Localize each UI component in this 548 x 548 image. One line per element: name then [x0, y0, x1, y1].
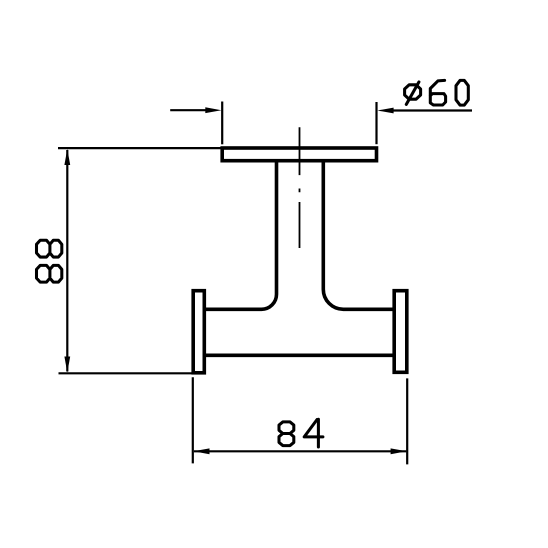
wall plate Ø60 flange (side view) — [222, 148, 376, 161]
bar bottom outline — [205, 353, 395, 357]
Ø60 right arrowhead (points left) — [377, 108, 393, 114]
Ø60 right leader line — [394, 109, 473, 111]
88 text (rotated 90° CCW): first digit 8 — [36, 240, 61, 282]
Ø60 text: digit 0 — [456, 80, 468, 105]
88 text: second digit 8 — [36, 240, 61, 257]
84 right extension line — [406, 378, 408, 464]
84 text: digit 8 — [279, 419, 323, 447]
Ø60 left arrowhead (points right) — [205, 107, 221, 113]
Ø60 left extension line — [221, 102, 223, 145]
84 dimension line — [194, 450, 406, 452]
stem left outline with fillet to bar — [205, 161, 277, 310]
88 top arrowhead (points up) — [64, 149, 70, 165]
Ø60 right extension line — [375, 102, 377, 144]
88 top extension line — [58, 147, 221, 149]
stem right outline with fillet to bar — [323, 161, 394, 310]
88 dimension line — [66, 150, 68, 372]
Ø60 text: diameter symbol — [405, 80, 469, 105]
88 bottom arrowhead (points down) — [64, 357, 70, 373]
84 left extension line — [192, 377, 194, 463]
84 right arrowhead (points right) — [391, 448, 407, 454]
left end flange (disc edge view) — [193, 291, 204, 373]
Ø60 left leader line — [170, 109, 206, 111]
84 left arrowhead (points left) — [193, 448, 209, 454]
88 bottom extension line — [59, 372, 192, 374]
centerline (vertical dash-dot axis) — [299, 127, 301, 248]
Ø60 text: digit 6 — [430, 80, 445, 105]
84 text: digit 4 — [304, 420, 323, 437]
right end flange (disc edge view) — [394, 291, 407, 373]
